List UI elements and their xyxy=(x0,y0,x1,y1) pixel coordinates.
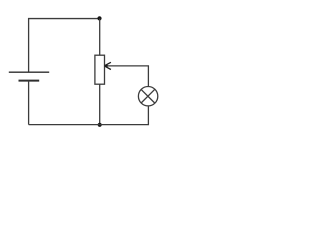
wire: junction down to potentiometer top xyxy=(99,19,101,56)
node B: bottom junction dot xyxy=(98,123,102,127)
lamp L1 cross stroke 2 xyxy=(141,89,155,103)
wire: bottom rail xyxy=(29,106,149,125)
wire: potentiometer bottom lead xyxy=(99,84,101,125)
wire: top rail from left corner to junction xyxy=(29,19,100,73)
wire: wiper arm from arrow to lamp top xyxy=(107,66,148,86)
battery B1 short plate (-) xyxy=(19,80,40,82)
potentiometer R1 body xyxy=(95,55,105,84)
lamp L1 cross stroke 1 xyxy=(141,89,155,103)
node A: top junction dot xyxy=(97,16,101,20)
wiper arrowhead pointing at R1 xyxy=(104,64,107,68)
wire: battery bottom to bottom-left corner xyxy=(28,81,30,125)
lamp L1 circle xyxy=(138,87,157,106)
battery B1 long plate (+) xyxy=(9,71,49,73)
